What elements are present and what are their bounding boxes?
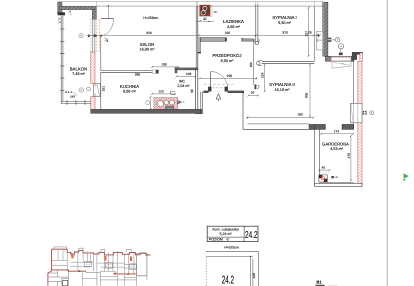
svg-text:6,86 m²: 6,86 m² xyxy=(123,89,137,93)
dimension 205 przedpokoj xyxy=(199,74,258,79)
svg-text:B1: B1 xyxy=(316,279,322,284)
meter symbol right of window xyxy=(370,111,374,115)
svg-text:4,53 m²: 4,53 m² xyxy=(330,147,344,151)
door jamb blobs on balcony wall xyxy=(88,35,90,38)
svg-text:SALON: SALON xyxy=(140,42,155,47)
svg-text:SYPIALNIA II: SYPIALNIA II xyxy=(269,82,295,87)
wall right big (dark) xyxy=(324,2,328,56)
svg-text:174: 174 xyxy=(334,130,340,134)
svg-text:320: 320 xyxy=(146,31,152,35)
wall garderoba top segments xyxy=(309,124,325,129)
svg-text:313: 313 xyxy=(282,31,288,35)
shelf fixture below corner xyxy=(332,61,351,68)
lamp symbol balcony bottom xyxy=(79,88,83,92)
wall balcony left edge xyxy=(60,16,62,104)
dimension 257 vertical sypialnia1 xyxy=(305,7,310,58)
door jamb sypialnia1 xyxy=(255,39,259,43)
key plan stair cores xyxy=(85,262,137,270)
dimension 110 kitchen counter xyxy=(151,90,176,95)
wall bottom main (kitchen/wc) xyxy=(91,109,203,113)
wall sypialnia1 bottom xyxy=(262,60,315,62)
wall WC top xyxy=(175,68,198,70)
key plan parapet top-left xyxy=(54,247,67,249)
wall przedpokoj right thin xyxy=(253,41,255,85)
wall stub at kitchen opening xyxy=(156,70,159,74)
wall WC right / salon-lazienka xyxy=(194,68,196,110)
electrical box garderoba xyxy=(319,175,327,182)
svg-text:205: 205 xyxy=(227,74,233,78)
svg-text:9,30 m²: 9,30 m² xyxy=(278,21,292,25)
dimension 306 vertical sypialnia2 xyxy=(305,64,311,118)
kitchen counter (red outline, sink+hob) xyxy=(149,96,177,110)
svg-text:92: 92 xyxy=(203,17,207,21)
svg-text:16,90 m²: 16,90 m² xyxy=(140,48,156,52)
black corner column xyxy=(352,52,363,60)
wall lazienka-sypialnia1 xyxy=(255,4,257,44)
meter symbols corridor xyxy=(328,38,343,56)
svg-text:2,04 m²: 2,04 m² xyxy=(177,84,190,88)
dimension 45 garderoba xyxy=(318,165,330,171)
green arrow marker xyxy=(404,173,409,178)
svg-text:H=325cm: H=325cm xyxy=(224,245,239,249)
svg-text:7,49 m²: 7,49 m² xyxy=(72,72,86,76)
dimension 276 vertical garderoba xyxy=(347,135,352,182)
info table xyxy=(207,226,258,241)
entrance door jambs xyxy=(208,87,211,92)
door salon-balcony opening line xyxy=(107,6,109,19)
svg-text:143: 143 xyxy=(70,95,75,99)
building outline below sypialnia2 xyxy=(243,128,315,130)
key plan orange apartment marks xyxy=(72,254,74,258)
svg-text:163: 163 xyxy=(297,112,303,116)
svg-text:H=256cm: H=256cm xyxy=(143,16,158,20)
svg-text:276: 276 xyxy=(347,153,351,159)
key plan gray bumps top xyxy=(79,248,132,252)
svg-text:90: 90 xyxy=(190,89,194,93)
lamp symbol balcony top xyxy=(79,34,83,38)
balustrade tick marks xyxy=(60,29,85,105)
svg-text:4,66 m²: 4,66 m² xyxy=(227,25,241,29)
dimension 163 sypialnia2 xyxy=(246,112,314,118)
entrance marker triangle xyxy=(216,94,221,99)
key plan interior gray lines xyxy=(52,249,137,274)
svg-text:385: 385 xyxy=(135,73,141,77)
svg-text:PRZEDPOKÓJ: PRZEDPOKÓJ xyxy=(212,53,241,58)
door salon-balcony (leaf and arc) xyxy=(101,18,114,20)
key plan lower middle rooms xyxy=(83,272,97,286)
duct box in top wall xyxy=(331,57,351,61)
wall przedpokoj bottom with entrance xyxy=(204,91,209,93)
dashed line garderoba xyxy=(320,172,330,174)
svg-text:ŁAZIENKA: ŁAZIENKA xyxy=(223,19,244,24)
storage room plan xyxy=(206,251,258,286)
wall top interior line xyxy=(97,5,324,7)
wall salon-kuchnia divider xyxy=(101,70,156,72)
wall red hatch strip right xyxy=(358,61,362,186)
wall horizontal dark (sypialnia2 top-right) xyxy=(325,56,353,61)
wall sypialnia2 right inner xyxy=(353,61,355,103)
symbol near kitchen balcony door xyxy=(87,87,91,91)
wall przedpokoj top (lazienka bottom) xyxy=(201,38,227,42)
floor drain symbol kitchen xyxy=(146,101,150,105)
key plan red outer top outline xyxy=(52,249,151,271)
balcony glazing double line xyxy=(92,19,94,52)
wall red hatch strip left (balcony wall) xyxy=(91,52,95,84)
wall garderoba left xyxy=(314,125,316,186)
svg-text:24.2: 24.2 xyxy=(222,274,234,286)
wall step below wc xyxy=(200,92,202,114)
svg-text:A.1.1.: A.1.1. xyxy=(65,90,73,94)
wall garderoba bottom xyxy=(319,181,353,183)
svg-text:124: 124 xyxy=(261,72,265,78)
dimension 92 lazienka xyxy=(196,17,214,22)
svg-text:5,24 m²: 5,24 m² xyxy=(220,232,233,236)
page border right xyxy=(386,0,388,286)
wall passage top piece xyxy=(242,39,254,41)
svg-text:110: 110 xyxy=(158,90,163,94)
key plan bottom edges xyxy=(52,270,86,271)
dimension chain y35 xyxy=(86,31,321,37)
entrance door leaf and arc xyxy=(210,71,212,89)
vent symbol right of window xyxy=(363,111,367,115)
WC door marks xyxy=(171,91,176,94)
key plan annex lower-left xyxy=(48,271,52,286)
niche sypialnia1 right wall xyxy=(316,31,322,50)
dimension 108 wc xyxy=(176,72,197,77)
key plan mini building xyxy=(48,247,151,286)
svg-text:POZIOM -2: POZIOM -2 xyxy=(209,238,229,242)
dimension 124 vertical xyxy=(261,64,266,93)
dashed finish lines (tan) xyxy=(90,19,92,52)
wall salon left inner xyxy=(100,36,102,71)
svg-text:228: 228 xyxy=(252,273,256,279)
svg-text:6,90 m²: 6,90 m² xyxy=(221,59,235,63)
svg-text:24.2: 24.2 xyxy=(245,230,258,241)
svg-text:256: 256 xyxy=(249,62,253,67)
svg-text:KUCHNIA: KUCHNIA xyxy=(120,84,139,89)
svg-text:292: 292 xyxy=(225,31,231,35)
wall sypialnia2 bottom inner xyxy=(248,123,310,125)
wall top-left hatched corner xyxy=(58,2,97,19)
dashed ceiling line przedpokoj xyxy=(204,83,234,85)
svg-text:BALKON: BALKON xyxy=(70,66,87,71)
svg-text:45: 45 xyxy=(322,165,326,169)
svg-text:16,19 m²: 16,19 m² xyxy=(275,88,291,92)
svg-text:306: 306 xyxy=(305,93,309,99)
svg-text:257: 257 xyxy=(305,31,309,37)
wall przedpokoj left (gray pier) xyxy=(198,38,201,53)
wall balcony bottom edge xyxy=(61,101,94,103)
dimension 50 xyxy=(248,90,259,96)
wall lower-extension left xyxy=(242,92,244,130)
dimension 174 garderoba xyxy=(320,130,354,135)
dimension 108 above kitchen sink xyxy=(151,62,179,68)
svg-text:161: 161 xyxy=(101,86,105,92)
balcony door kitchen xyxy=(94,84,101,97)
svg-text:108: 108 xyxy=(186,72,192,76)
svg-text:108: 108 xyxy=(161,62,167,66)
wall junction ticks on top wall xyxy=(97,2,323,7)
svg-text:50: 50 xyxy=(251,90,255,94)
svg-text:60: 60 xyxy=(177,100,181,104)
washing machine lazienka (red) xyxy=(200,5,218,16)
door jamb sypialnia2 top-left xyxy=(254,84,256,89)
label B1 legend xyxy=(315,279,337,286)
svg-text:SYPIALNIA I: SYPIALNIA I xyxy=(272,15,296,20)
window sypialnia2 right xyxy=(350,103,362,122)
svg-text:GARDEROBA: GARDEROBA xyxy=(322,141,349,146)
small symbol garderoba xyxy=(331,176,334,178)
key plan right gray block xyxy=(137,254,147,276)
wall top exterior line xyxy=(57,1,323,3)
WC arrow xyxy=(179,101,185,103)
key plan red squares bottom xyxy=(78,270,80,272)
